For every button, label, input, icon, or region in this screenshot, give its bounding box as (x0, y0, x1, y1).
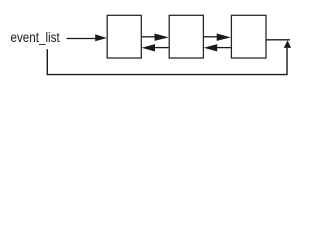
svg-text:event_list: event_list (11, 30, 60, 45)
